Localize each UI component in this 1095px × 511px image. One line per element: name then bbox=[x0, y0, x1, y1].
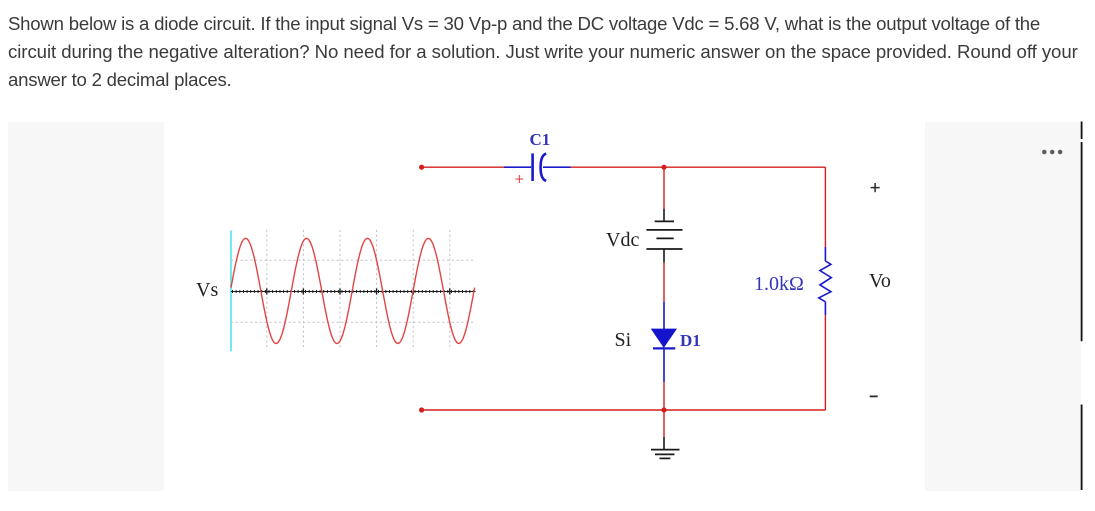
node A (top junction) bbox=[661, 165, 666, 170]
Vo plus terminal bbox=[871, 183, 880, 192]
svg-text:1.0kΩ: 1.0kΩ bbox=[754, 273, 804, 295]
capacitor C1 lead right bbox=[543, 166, 571, 168]
wire right branch bottom bbox=[824, 315, 826, 410]
resistor R1 zigzag bbox=[819, 261, 832, 302]
battery Vdc top lead bbox=[663, 209, 665, 222]
ground lead bbox=[663, 410, 665, 437]
resistor R1 top lead bbox=[824, 247, 826, 261]
resistor R1 bottom lead bbox=[824, 302, 826, 315]
capacitor C1 lead left bbox=[504, 166, 531, 168]
svg-text:Vs: Vs bbox=[196, 279, 218, 301]
Vs axis major ticks bbox=[267, 288, 450, 294]
wire diode to node B bbox=[663, 382, 665, 410]
node B (bottom junction) bbox=[661, 407, 666, 412]
wire top-left to capacitor bbox=[422, 166, 504, 168]
wire battery to diode bbox=[663, 263, 665, 302]
node bottom-left terminal dot bbox=[419, 407, 424, 412]
svg-text:C1: C1 bbox=[530, 130, 551, 149]
ground symbol bbox=[651, 450, 680, 459]
svg-text:Vo: Vo bbox=[869, 270, 891, 292]
wire node A to right corner bbox=[664, 166, 825, 168]
Vs sine waveform bbox=[231, 238, 475, 343]
wire bottom bbox=[422, 409, 826, 411]
Vs plot left cyan edge bbox=[230, 231, 232, 352]
diode D1 cathode bar bbox=[653, 347, 675, 349]
svg-text:Si: Si bbox=[615, 329, 632, 351]
question text bbox=[8, 10, 1078, 94]
svg-text:Vdc: Vdc bbox=[606, 229, 639, 251]
node IN (top-left terminal dot) bbox=[419, 165, 424, 170]
Vo minus terminal bbox=[870, 395, 878, 397]
right gray panel bbox=[925, 122, 1081, 491]
battery Vdc plates bbox=[646, 221, 682, 249]
left gray panel bbox=[8, 122, 164, 491]
right border line bbox=[1081, 122, 1083, 491]
Vs plot grid bbox=[231, 230, 476, 350]
overflow menu dots bbox=[1042, 150, 1062, 155]
wire node A down to battery bbox=[663, 167, 665, 209]
Vs time axis bbox=[231, 291, 476, 293]
capacitor C1 plates bbox=[533, 153, 547, 181]
svg-text:+: + bbox=[515, 170, 525, 189]
diode D1 cathode lead bbox=[663, 348, 665, 382]
battery Vdc bottom lead bbox=[663, 249, 665, 263]
diode D1 body bbox=[651, 329, 677, 348]
svg-text:D1: D1 bbox=[680, 331, 701, 350]
wire capacitor to node A bbox=[571, 166, 665, 168]
wire right branch top bbox=[824, 167, 826, 247]
diode D1 anode lead bbox=[663, 302, 665, 329]
